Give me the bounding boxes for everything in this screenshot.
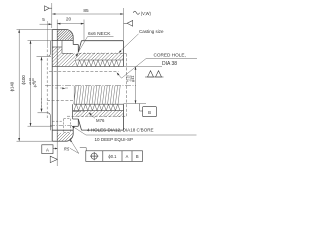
recess bottom vertical line [56,30,58,142]
counterbore hidden top [64,118,71,120]
casting outline dashed top [78,53,126,55]
dim 5 extension [46,21,48,48]
dim 5 line [40,23,52,25]
dim dia100 text [21,75,26,85]
note 4 HOLES shelf [86,134,197,136]
dim dia41 text [130,75,135,82]
note 6x6 NECK text [88,31,111,37]
hatch flange top block [36,30,86,41]
note DIA 38 text [162,61,177,67]
neck slant lower [78,119,81,130]
right end face upper [123,41,125,67]
flange front face upper [72,37,74,40]
dim 20 extension a [56,20,58,30]
svg-text:B: B [148,110,151,115]
svg-text:A: A [126,154,129,159]
hatch upper wall band right [61,53,133,60]
lower bore line (thread inner) [74,103,124,105]
dim dia100 ext bottom [28,125,53,127]
boss OD bottom line [52,129,73,131]
note CORED HOLE shelf [146,58,197,60]
small hidden dashes near axis [55,87,70,89]
upper bore line (thread root) [52,66,123,68]
dim dia79 line [41,57,43,112]
datum A arrow [53,148,58,150]
note 4 HOLES text [87,127,154,132]
neck groove face upper [77,45,79,53]
dim 20 extension b [83,20,85,41]
dim dia140 text [10,81,15,91]
flange front face lower [72,130,74,134]
boss OD top line [52,40,73,42]
dim dia100 line [30,41,32,127]
thread root end line [73,111,86,113]
dim dia140 ext top [17,29,53,31]
svg-text:DIA 38: DIA 38 [162,61,177,67]
note 6x6 NECK shelf [88,36,114,38]
casting outline dashed right [125,54,127,117]
bolt hole upper bottom line [52,46,62,48]
svg-text:ϕ0.1: ϕ0.1 [108,154,117,159]
cbore upper bottom line [62,52,73,54]
machining flag bottom [50,156,57,162]
note 6x6 NECK leader [76,37,88,57]
thread end shelf lower [73,118,79,120]
svg-text:(V,W): (V,W) [141,11,152,16]
dim 20 text [66,16,72,21]
dim dia41 tolerance text [126,74,133,82]
recess edge bottom line [38,112,48,114]
casting outline dashed bottom [67,115,126,117]
lower thread profile teeth [74,104,120,110]
cored hole hidden line lower [47,99,74,101]
fcf tolerance text [108,154,117,159]
svg-text:B: B [136,154,139,159]
recess corner upper [48,41,51,56]
counterbore hidden bottom [64,132,71,134]
svg-text:5: 5 [42,17,45,22]
svg-text:20: 20 [66,16,72,21]
dim dia41 ext top [124,66,163,68]
surface symbol text [133,11,151,16]
hatch flange bottom block [41,133,82,141]
machining triangles pair [145,71,164,77]
cored hole hidden line upper [49,71,119,73]
note 4 HOLES leader [72,126,87,135]
note Casting size text [139,29,164,34]
note Casting size leader [119,34,139,53]
bolt hole centreline [50,125,72,127]
dim 20 line [57,23,84,25]
datum B stem [140,104,143,111]
lower thread root line [73,110,124,112]
extension line below flange [56,141,58,166]
hidden dashed vertical lower-left [41,98,43,112]
svg-text:ϕ100: ϕ100 [21,75,26,85]
svg-text:-0.10: -0.10 [31,78,35,85]
thread section OD top [82,40,124,42]
neck shelf upper [73,44,78,46]
svg-text:10 DEEP EQUI-SP: 10 DEEP EQUI-SP [95,137,134,142]
dim 85 text [83,8,89,13]
neck slant upper [78,41,81,52]
datum A box [42,145,53,154]
svg-text:6x6 NECK: 6x6 NECK [88,31,111,37]
dim dia41 ext bottom [124,103,147,105]
svg-text:-0.05: -0.05 [128,75,132,82]
fcf datum A text [126,154,129,159]
svg-text:ϕ140: ϕ140 [10,81,15,91]
recess edge top line [37,55,52,57]
upper thread crest line [75,59,124,61]
dim dia79 text [32,80,37,87]
helix band left boundary [73,86,75,104]
note M76 leader [89,113,95,119]
position symbol [90,152,98,160]
dim dia79 tolerance text [28,77,35,85]
dim 85 extension left [51,3,53,28]
svg-text:CORED HOLE,: CORED HOLE, [154,53,186,58]
fcf datum B text [136,154,139,159]
flange bottom-right fillet arc [66,134,73,141]
dim 85 line [52,13,123,15]
machining flag right [124,21,133,27]
recess corner lower [48,113,51,130]
datum B box [143,107,157,117]
right end face lower [123,104,125,130]
thread helix crest lines [74,86,120,104]
flange bottom edge [52,140,66,142]
svg-text:M76: M76 [96,118,105,123]
neck groove face lower [77,119,79,126]
svg-text:85: 85 [83,8,89,13]
dim dia41 line [135,67,137,104]
note CORED HOLE text [154,53,186,58]
upper thread profile teeth [75,60,121,66]
recess hidden face dashed [46,50,48,119]
bolt hole hidden top [52,120,63,122]
neck shelf lower [73,125,78,127]
dim dia140 ext bottom [17,140,53,142]
dim dia100 ext top [28,40,53,42]
counterbore hidden step [63,119,65,133]
part axis centreline [45,84,136,86]
svg-text:A: A [46,147,49,152]
flange top edge [52,29,66,31]
step at neck upper [72,41,74,45]
note CORED HOLE leader [117,59,146,79]
dim dia140 line [18,30,20,142]
flange back face [51,30,53,142]
cbore upper step vertical [61,41,63,54]
note R5 leader [70,139,79,153]
note 10 DEEP text [95,137,134,142]
dim 85 extension right [123,8,125,40]
svg-text:Casting size: Casting size [139,29,164,34]
svg-text:R5: R5 [64,146,70,151]
svg-text:4 HOLES DIA12, DIA18 C'BORE: 4 HOLES DIA12, DIA18 C'BORE [87,127,154,132]
flange top-right fillet arc [66,30,73,38]
note R5 text [64,146,70,151]
bolt hole hidden bottom [52,129,63,131]
feature control frame box [86,151,143,162]
machining flag top [45,6,52,11]
dim 5 text [42,17,45,22]
thread end face lower [72,104,74,119]
hatch upper wall band left [14,47,94,66]
thread section OD bottom [82,129,124,131]
note M76 text [96,118,105,123]
step at neck lower [72,126,74,130]
hatch lower wall band [62,111,133,117]
fcf attach stem [80,148,86,151]
counterbore hidden face [69,119,71,133]
